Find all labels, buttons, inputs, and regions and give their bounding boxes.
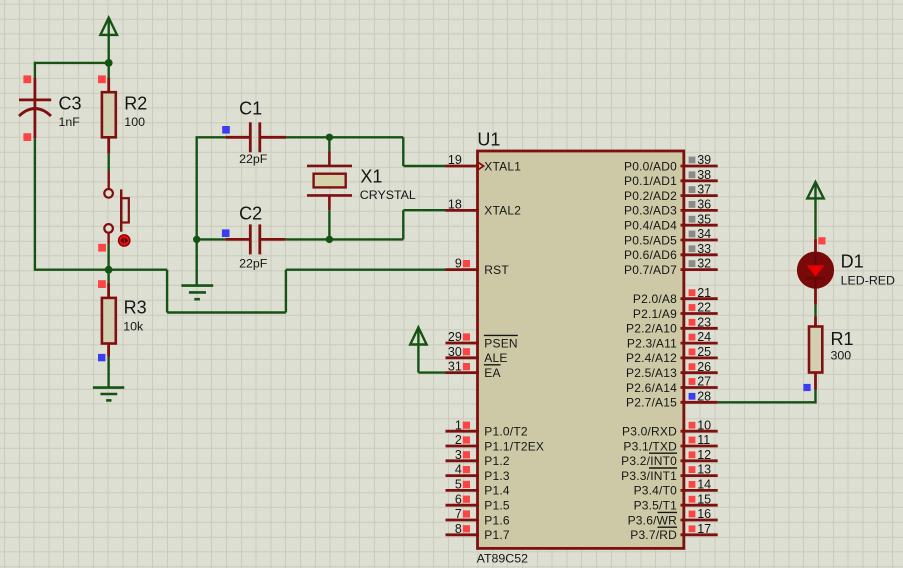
svg-text:P2.5/A13: P2.5/A13: [626, 366, 677, 380]
svg-text:P3.4/T0: P3.4/T0: [634, 484, 678, 498]
svg-text:P3.5/T1: P3.5/T1: [634, 499, 678, 513]
U1 pin 2 pin-end square: [463, 436, 470, 443]
U1 pin 14 (P3.4/T0) stub: [681, 489, 718, 492]
capacitor C3: [19, 78, 51, 138]
U1 pin 38 (P0.1/AD1) stub: [681, 179, 718, 182]
U1 pin 8 pin-end square: [463, 525, 470, 532]
svg-text:32: 32: [697, 257, 711, 271]
push-button pin-end square (bottom): [98, 244, 106, 252]
resistor R1 pin-end square (bottom, blue): [803, 384, 810, 391]
power symbol (arrow at EA): [410, 327, 426, 372]
capacitor C2: [226, 224, 286, 254]
U1 pin 35 pin-end square: [689, 216, 696, 223]
resistor R1: [814, 317, 817, 327]
wire: down to XTAL1 row: [402, 137, 404, 166]
wire: rail to C1: [196, 136, 226, 138]
U1 pin 11 pin-end square: [689, 437, 696, 444]
svg-text:PSEN: PSEN: [484, 336, 517, 350]
U1 pin 31 pin-end square: [463, 363, 470, 370]
wire: button to bottom junction: [107, 244, 109, 270]
U1 pin 4 pin-end square: [463, 466, 470, 473]
U1 pin 26 pin-end square: [689, 363, 696, 370]
wire: RST to U1 pin 9: [286, 269, 446, 271]
node: junction at power arrow: [105, 59, 113, 67]
U1 pin 26 (P2.5/A13) stub: [681, 371, 718, 374]
U1 pin 27 pin-end square: [689, 378, 696, 385]
svg-text:33: 33: [697, 242, 711, 256]
svg-text:28: 28: [697, 389, 711, 403]
svg-text:23: 23: [697, 315, 711, 329]
U1 pin 5 pin-end square: [463, 481, 470, 488]
crystal X1: [328, 137, 330, 151]
U1 pin 24 (P2.3/A11) stub: [681, 342, 718, 345]
U1 pin 28 (P2.7/A15) stub: [681, 401, 718, 404]
overline INT1: [649, 467, 677, 469]
U1 pin 15 pin-end square: [689, 496, 696, 503]
svg-text:4: 4: [455, 463, 462, 477]
svg-text:18: 18: [448, 198, 462, 212]
U1 pin 29 (PSEN) stub: [446, 342, 480, 345]
U1 pin 2 (P1.1/T2EX) stub: [446, 445, 480, 448]
svg-text:P0.5/AD5: P0.5/AD5: [624, 233, 677, 247]
node: junction C1 / crystal top: [326, 134, 333, 141]
svg-text:P2.7/A15: P2.7/A15: [626, 396, 677, 410]
svg-text:ALE: ALE: [484, 351, 507, 365]
LED D1: [814, 239, 817, 254]
U1 pin 10 pin-end square: [689, 422, 696, 429]
U1 pin 28 pin-end square: [689, 393, 696, 400]
U1 pin 38 pin-end square: [689, 171, 696, 178]
svg-text:26: 26: [697, 360, 711, 374]
U1 pin 29 pin-end square: [463, 333, 470, 340]
wire: up to XTAL2 row: [402, 210, 404, 239]
svg-text:29: 29: [448, 330, 462, 344]
U1 pin 16 (P3.6/WR) stub: [681, 519, 718, 522]
wire: RST link up segment: [285, 270, 287, 313]
svg-text:P3.1/TXD: P3.1/TXD: [623, 439, 677, 453]
svg-text:XTAL2: XTAL2: [484, 204, 521, 218]
svg-text:9: 9: [455, 257, 462, 271]
capacitor C2 pin-end square (left, blue): [222, 229, 230, 237]
U1 pin 6 (P1.5) stub: [446, 504, 480, 507]
svg-text:P0.1/AD1: P0.1/AD1: [624, 174, 677, 188]
svg-text:C3: C3: [59, 94, 82, 114]
svg-text:12: 12: [697, 448, 711, 462]
svg-text:D1: D1: [841, 252, 864, 272]
U1 pin 13 (P3.3/INT1) stub: [681, 474, 718, 477]
svg-text:P3.6/WR: P3.6/WR: [628, 513, 678, 527]
wire: mid rail to ground stem: [195, 239, 197, 285]
U1 pin 15 (P3.5/T1) stub: [681, 504, 718, 507]
push-button switch (contacts and plunger): [104, 171, 129, 244]
svg-text:17: 17: [697, 522, 711, 536]
U1 pin 22 (P2.1/A9) stub: [681, 312, 718, 315]
svg-text:P2.6/A14: P2.6/A14: [626, 381, 677, 395]
U1 pin 23 (P2.2/A10) stub: [681, 327, 718, 330]
svg-text:P2.0/A8: P2.0/A8: [633, 292, 677, 306]
svg-text:30: 30: [448, 345, 462, 359]
wire: C2 to crystal bottom node: [285, 238, 403, 240]
U1 pin 9 (RST) stub: [446, 268, 480, 271]
wire: bottom rail (C3 to corner): [35, 269, 167, 271]
U1 pin 35 (P0.4/AD4) stub: [681, 224, 718, 227]
U1 pin 16 pin-end square: [689, 511, 696, 518]
wire: RST link horizontal segment: [167, 311, 286, 313]
wire: down to C3: [34, 62, 36, 78]
svg-text:39: 39: [697, 153, 711, 167]
U1 pin 17 pin-end square: [689, 525, 696, 532]
svg-text:6: 6: [455, 492, 462, 506]
U1 pin 19 chevron marker: [477, 162, 483, 171]
U1 pin 39 pin-end square: [689, 157, 696, 164]
U1 pin 27 (P2.6/A14) stub: [681, 386, 718, 389]
U1 pin 5 (P1.4) stub: [446, 489, 480, 492]
push-button interactive indicator (red circle): [119, 235, 130, 246]
capacitor C1: [226, 122, 286, 152]
resistor R3 pin-end square (bottom, blue): [98, 354, 105, 361]
U1 pin 7 pin-end square: [463, 510, 470, 517]
U1 pin 24 pin-end square: [689, 334, 696, 341]
wire: power node horizontal to C3 branch: [35, 62, 109, 64]
U1 pin 13 pin-end square: [689, 466, 696, 473]
wire: arrow to U1 pin 31 (EA): [418, 371, 445, 373]
power symbol (arrow above LED): [807, 182, 823, 239]
svg-text:21: 21: [697, 286, 711, 300]
resistor R2 pin-end square (top): [98, 75, 106, 83]
svg-text:34: 34: [697, 227, 711, 241]
svg-text:R1: R1: [831, 329, 854, 349]
wire: rail to C2: [197, 238, 226, 240]
svg-text:22: 22: [697, 301, 711, 315]
overline RD: [658, 526, 678, 528]
wire: U1 pin 28 to R1: [718, 401, 816, 403]
svg-text:10k: 10k: [123, 319, 144, 333]
U1 pin 6 pin-end square: [463, 496, 470, 503]
svg-text:XTAL1: XTAL1: [484, 159, 521, 173]
wire: to U1 pin 18: [403, 209, 445, 211]
U1 pin 33 (P0.6/AD6) stub: [681, 253, 718, 256]
svg-text:P0.0/AD0: P0.0/AD0: [624, 159, 677, 173]
svg-text:P3.7/RD: P3.7/RD: [630, 528, 677, 542]
wire: RST link down segment: [166, 270, 168, 313]
node: junction C2 / crystal bottom: [326, 236, 333, 243]
svg-text:P1.2: P1.2: [484, 454, 510, 468]
svg-text:8: 8: [455, 522, 462, 536]
svg-text:5: 5: [455, 478, 462, 492]
svg-text:P1.5: P1.5: [484, 499, 510, 513]
U1 pin 33 pin-end square: [689, 245, 696, 252]
svg-text:25: 25: [697, 345, 711, 359]
svg-text:R2: R2: [124, 94, 147, 114]
svg-text:7: 7: [455, 507, 462, 521]
svg-text:CRYSTAL: CRYSTAL: [360, 188, 416, 202]
svg-text:P1.4: P1.4: [484, 484, 510, 498]
U1 pin 7 (P1.6) stub: [446, 519, 480, 522]
svg-text:P2.1/A9: P2.1/A9: [633, 307, 677, 321]
svg-text:P3.0/RXD: P3.0/RXD: [622, 425, 677, 439]
svg-text:300: 300: [831, 348, 852, 362]
svg-text:AT89C52: AT89C52: [477, 551, 529, 565]
resistor R3: [107, 283, 110, 298]
wire: junction down to R3: [107, 270, 109, 283]
LED D1 pin-end square (top): [818, 237, 825, 244]
wire: R2 to push-button: [107, 154, 109, 171]
svg-text:EA: EA: [484, 366, 500, 380]
U1 pin 1 (P1.0/T2) stub: [446, 430, 480, 433]
svg-text:31: 31: [448, 360, 462, 374]
svg-text:27: 27: [697, 375, 711, 389]
U1 pin 21 (P2.0/A8) stub: [681, 297, 718, 300]
U1 pin 10 (P3.0/RXD) stub: [681, 430, 718, 433]
U1 pin 25 pin-end square: [689, 349, 696, 356]
resistor R3 pin-end square (top): [98, 280, 106, 288]
U1 pin 19 (XTAL1) stub: [446, 165, 480, 168]
svg-text:RST: RST: [484, 263, 509, 277]
ground (below C2 rail): [181, 286, 213, 300]
U1 pin 23 pin-end square: [689, 319, 696, 326]
U1 pin 34 pin-end square: [689, 231, 696, 238]
svg-text:P1.6: P1.6: [484, 513, 510, 527]
svg-text:1nF: 1nF: [59, 115, 81, 129]
svg-text:P1.0/T2: P1.0/T2: [484, 425, 528, 439]
wire: to U1 pin 19: [403, 165, 445, 167]
U1 pin 18 (XTAL2) stub: [446, 209, 480, 212]
svg-text:P3.3/INT1: P3.3/INT1: [621, 469, 677, 483]
wire: C1 to crystal node: [286, 136, 403, 138]
wire: R3 to ground: [107, 357, 109, 388]
svg-text:P0.2/AD2: P0.2/AD2: [624, 189, 677, 203]
capacitor C3 pin-end square (bottom): [23, 133, 31, 141]
node: junction rail / C2: [193, 236, 200, 243]
U1 pin 21 pin-end square: [689, 289, 696, 296]
U1 pin 22 pin-end square: [689, 304, 696, 311]
svg-text:P1.3: P1.3: [484, 469, 510, 483]
svg-text:C1: C1: [239, 99, 262, 119]
svg-text:36: 36: [697, 198, 711, 212]
U1 pin 39 (P0.0/AD0) stub: [681, 165, 718, 168]
U1 pin 25 (P2.4/A12) stub: [681, 356, 718, 359]
ground (below R3): [93, 388, 124, 401]
U1 pin 37 (P0.2/AD2) stub: [681, 194, 718, 197]
op chip U1 AT89C52 body: [478, 151, 684, 548]
svg-text:22pF: 22pF: [239, 257, 268, 271]
svg-text:22pF: 22pF: [239, 152, 268, 166]
svg-text:2: 2: [455, 433, 462, 447]
svg-text:37: 37: [697, 183, 711, 197]
wire: power node down to R2: [107, 63, 109, 78]
svg-text:16: 16: [697, 507, 711, 521]
U1 pin 32 pin-end square: [689, 260, 696, 267]
svg-text:R3: R3: [124, 297, 147, 317]
svg-text:C2: C2: [239, 204, 262, 224]
U1 pin 12 pin-end square: [689, 451, 696, 458]
svg-text:100: 100: [124, 115, 145, 129]
svg-text:15: 15: [697, 492, 711, 506]
U1 pin 8 (P1.7) stub: [446, 533, 480, 536]
capacitor C3 pin-end square (top): [23, 75, 31, 83]
svg-text:X1: X1: [360, 166, 382, 186]
svg-text:LED-RED: LED-RED: [841, 273, 895, 287]
svg-text:U1: U1: [477, 130, 500, 150]
wire: C3 bottom down to bottom rail: [34, 138, 36, 271]
svg-text:24: 24: [697, 330, 711, 344]
U1 pin 36 pin-end square: [689, 201, 696, 208]
U1 pin 30 pin-end square: [463, 348, 470, 355]
wire: LED to R1: [814, 305, 816, 317]
svg-text:11: 11: [697, 433, 710, 447]
svg-text:19: 19: [448, 153, 462, 167]
U1 pin 17 (P3.7/RD) stub: [681, 533, 718, 536]
U1 pin 1 pin-end square: [463, 422, 470, 429]
svg-text:38: 38: [697, 168, 711, 182]
svg-text:P1.1/T2EX: P1.1/T2EX: [484, 439, 544, 453]
U1 pin 14 pin-end square: [689, 481, 696, 488]
svg-text:1: 1: [455, 418, 462, 432]
U1 pin 37 pin-end square: [689, 186, 696, 193]
svg-text:P0.3/AD3: P0.3/AD3: [624, 204, 677, 218]
power symbol (VCC arrow, top-left): [100, 18, 117, 63]
U1 pin 12 (P3.2/INT0) stub: [681, 459, 718, 462]
svg-text:13: 13: [697, 463, 711, 477]
svg-text:P3.2/INT0: P3.2/INT0: [621, 454, 677, 468]
resistor R2: [107, 78, 110, 92]
wire: C1 left vertical rail: [195, 137, 197, 239]
U1 pin 4 (P1.3) stub: [446, 474, 480, 477]
U1 pin 36 (P0.3/AD3) stub: [681, 209, 718, 212]
svg-text:P2.3/A11: P2.3/A11: [627, 336, 677, 350]
U1 pin 30 (ALE) stub: [446, 356, 480, 359]
U1 pin 3 pin-end square: [463, 451, 470, 458]
U1 pin 11 (P3.1/TXD) stub: [681, 445, 718, 448]
node: junction bottom of button: [105, 266, 113, 274]
svg-text:10: 10: [697, 418, 711, 432]
overline INT0: [649, 452, 677, 454]
U1 pin 34 (P0.5/AD5) stub: [681, 239, 718, 242]
U1 pin 9 pin-end square: [463, 260, 470, 267]
svg-text:P0.4/AD4: P0.4/AD4: [624, 219, 677, 233]
svg-text:P0.6/AD6: P0.6/AD6: [624, 248, 677, 262]
U1 pin 31 (EA) stub: [446, 371, 480, 374]
U1 pin 3 (P1.2) stub: [446, 459, 480, 462]
svg-text:14: 14: [697, 478, 711, 492]
capacitor C1 pin-end square (left, blue): [222, 126, 230, 134]
svg-text:3: 3: [455, 448, 462, 462]
svg-text:35: 35: [697, 212, 711, 226]
svg-text:P2.2/A10: P2.2/A10: [626, 322, 677, 336]
svg-text:P0.7/AD7: P0.7/AD7: [624, 263, 677, 277]
svg-text:P1.7: P1.7: [484, 528, 510, 542]
overline WR: [658, 511, 678, 513]
U1 pin 32 (P0.7/AD7) stub: [681, 268, 718, 271]
svg-text:P2.4/A12: P2.4/A12: [626, 351, 677, 365]
